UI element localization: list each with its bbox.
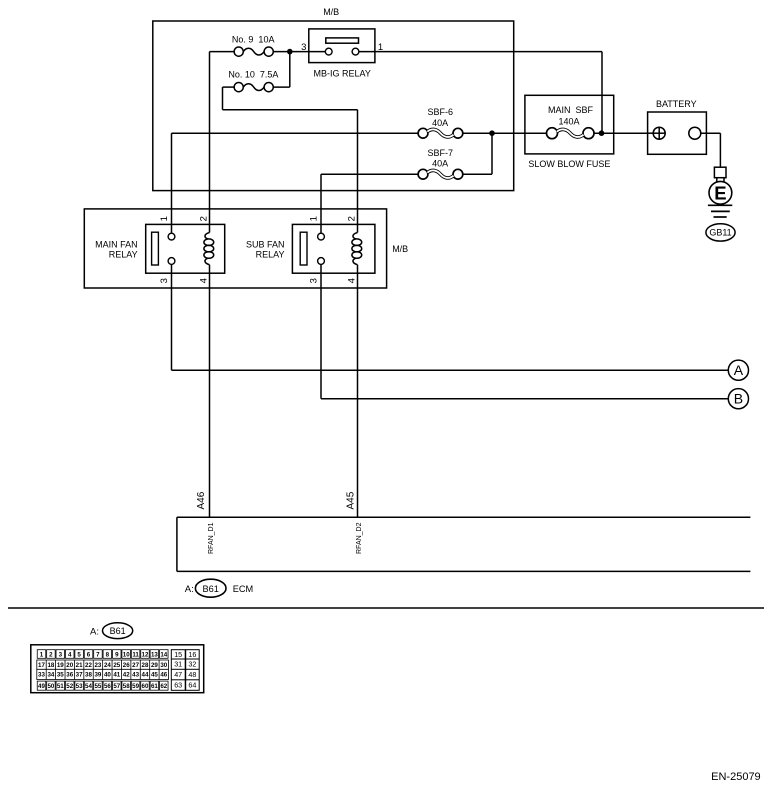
svg-text:31: 31: [174, 660, 182, 669]
svg-text:BATTERY: BATTERY: [656, 99, 697, 109]
svg-text:A46: A46: [196, 491, 207, 509]
svg-text:3: 3: [159, 278, 170, 283]
svg-text:1: 1: [40, 651, 44, 658]
svg-text:35: 35: [57, 672, 64, 679]
svg-text:22: 22: [85, 662, 92, 669]
svg-text:61: 61: [151, 683, 158, 690]
svg-text:13: 13: [151, 651, 158, 658]
svg-text:MAIN SBF: MAIN SBF: [548, 105, 594, 115]
svg-text:E: E: [714, 182, 726, 203]
svg-text:47: 47: [174, 670, 182, 679]
svg-text:RFAN_D2: RFAN_D2: [356, 522, 363, 554]
svg-text:24: 24: [104, 662, 111, 669]
svg-text:52: 52: [66, 683, 73, 690]
svg-text:RFAN_D1: RFAN_D1: [208, 522, 215, 554]
svg-text:MAIN FAN: MAIN FAN: [95, 240, 138, 250]
svg-text:37: 37: [76, 672, 83, 679]
svg-text:6: 6: [87, 651, 91, 658]
svg-text:SLOW BLOW FUSE: SLOW BLOW FUSE: [528, 159, 610, 169]
svg-text:MB-IG RELAY: MB-IG RELAY: [314, 69, 371, 79]
svg-text:45: 45: [151, 672, 158, 679]
svg-text:3: 3: [59, 651, 63, 658]
svg-text:49: 49: [38, 683, 45, 690]
svg-text:4: 4: [199, 278, 210, 283]
svg-text:40A: 40A: [432, 159, 448, 169]
svg-text:SBF-6: SBF-6: [428, 107, 454, 117]
svg-text:14: 14: [160, 651, 167, 658]
svg-text:34: 34: [47, 672, 54, 679]
svg-text:27: 27: [132, 662, 139, 669]
svg-text:A45: A45: [346, 491, 357, 509]
svg-text:25: 25: [113, 662, 120, 669]
svg-text:2: 2: [49, 651, 53, 658]
svg-text:60: 60: [142, 683, 149, 690]
svg-text:32: 32: [188, 660, 196, 669]
svg-text:M/B: M/B: [323, 7, 339, 17]
svg-text:53: 53: [76, 683, 83, 690]
svg-text:17: 17: [38, 662, 45, 669]
svg-text:41: 41: [113, 672, 120, 679]
svg-text:B: B: [734, 391, 743, 407]
svg-text:B61: B61: [110, 626, 126, 636]
svg-text:M/B: M/B: [392, 244, 408, 254]
svg-text:8: 8: [106, 651, 110, 658]
svg-text:64: 64: [188, 681, 196, 690]
svg-text:58: 58: [123, 683, 130, 690]
svg-text:26: 26: [123, 662, 130, 669]
svg-text:11: 11: [132, 651, 139, 658]
svg-text:SUB FAN: SUB FAN: [246, 240, 285, 250]
svg-text:5: 5: [77, 651, 81, 658]
svg-text:2: 2: [199, 216, 210, 221]
svg-text:16: 16: [188, 650, 196, 659]
svg-text:40A: 40A: [432, 118, 448, 128]
svg-text:59: 59: [132, 683, 139, 690]
svg-text:EN-25079: EN-25079: [711, 771, 761, 783]
svg-text:1: 1: [309, 216, 320, 221]
svg-text:ECM: ECM: [233, 584, 253, 594]
svg-text:50: 50: [47, 683, 54, 690]
svg-text:28: 28: [142, 662, 149, 669]
svg-text:15: 15: [174, 650, 182, 659]
svg-text:RELAY: RELAY: [109, 249, 138, 259]
svg-text:40: 40: [104, 672, 111, 679]
svg-text:B61: B61: [203, 584, 219, 594]
svg-text:33: 33: [38, 672, 45, 679]
svg-text:42: 42: [123, 672, 130, 679]
svg-text:63: 63: [174, 681, 182, 690]
svg-text:29: 29: [151, 662, 158, 669]
svg-text:12: 12: [142, 651, 149, 658]
svg-text:4: 4: [68, 651, 72, 658]
svg-text:A:: A:: [185, 584, 194, 595]
svg-text:36: 36: [66, 672, 73, 679]
svg-text:23: 23: [94, 662, 101, 669]
svg-text:19: 19: [57, 662, 64, 669]
svg-text:3: 3: [301, 42, 306, 53]
svg-text:62: 62: [160, 683, 167, 690]
svg-text:48: 48: [188, 670, 196, 679]
svg-text:No. 10 7.5A: No. 10 7.5A: [228, 70, 278, 80]
svg-text:9: 9: [115, 651, 119, 658]
svg-text:A:: A:: [90, 626, 99, 637]
svg-text:RELAY: RELAY: [256, 249, 285, 259]
svg-text:A: A: [734, 362, 744, 378]
svg-text:140A: 140A: [558, 117, 579, 127]
svg-text:20: 20: [66, 662, 73, 669]
svg-text:46: 46: [160, 672, 167, 679]
svg-text:No. 9 10A: No. 9 10A: [232, 35, 275, 45]
svg-text:3: 3: [309, 278, 320, 283]
svg-text:44: 44: [142, 672, 149, 679]
svg-text:2: 2: [347, 216, 358, 221]
svg-text:1: 1: [159, 216, 170, 221]
svg-text:55: 55: [94, 683, 101, 690]
svg-text:39: 39: [94, 672, 101, 679]
svg-text:38: 38: [85, 672, 92, 679]
svg-text:57: 57: [113, 683, 120, 690]
svg-text:54: 54: [85, 683, 92, 690]
svg-text:7: 7: [96, 651, 100, 658]
svg-text:GB11: GB11: [709, 228, 731, 238]
svg-text:51: 51: [57, 683, 64, 690]
svg-text:30: 30: [160, 662, 167, 669]
svg-text:18: 18: [47, 662, 54, 669]
svg-text:21: 21: [76, 662, 83, 669]
svg-text:4: 4: [347, 278, 358, 283]
svg-text:56: 56: [104, 683, 111, 690]
svg-text:43: 43: [132, 672, 139, 679]
svg-text:SBF-7: SBF-7: [428, 148, 454, 158]
svg-text:10: 10: [123, 651, 130, 658]
